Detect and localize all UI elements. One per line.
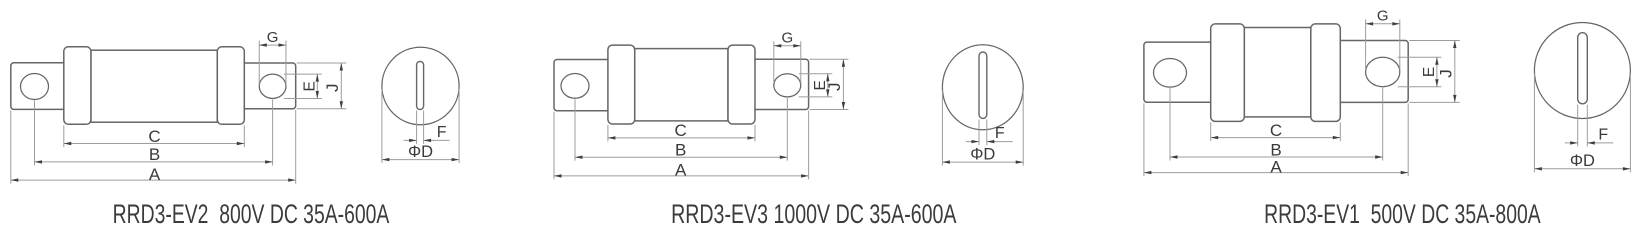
d2 dimension B extension lines [574, 99, 576, 160]
svg-text:RRD3-EV2 800V DC 35A-600A: RRD3-EV2 800V DC 35A-600A [113, 199, 390, 229]
d2 end view circle [942, 45, 1023, 130]
d2 left terminal tab [554, 60, 614, 111]
d2 right terminal tab [751, 59, 809, 109]
d3 dimension J extension lines [1409, 40, 1460, 42]
d1 dimension C [64, 143, 245, 145]
d1 dimension B extension lines [34, 101, 36, 166]
d1 dimension A extension lines [10, 110, 12, 183]
d1 dimension C extension lines [63, 125, 65, 147]
d1 dimension B [35, 161, 273, 163]
d2 right tab hole [774, 74, 801, 97]
svg-text:ΦD: ΦD [970, 146, 995, 164]
d3 dimension G [1366, 23, 1400, 25]
drawing 3 end view [1534, 23, 1630, 173]
d3 dimension C extension lines [1210, 122, 1212, 141]
d2 dimension G extension lines [773, 41, 775, 83]
d1 left end cap [64, 47, 91, 125]
d1 left tab hole [21, 74, 49, 100]
d1 dimension E [316, 74, 318, 98]
d2 right end cap [728, 45, 755, 124]
d2 dimension J [842, 59, 844, 109]
drawing 3 RRD3-EV1 side view [1144, 8, 1460, 177]
d3 dimension ΦD [1534, 168, 1630, 170]
d3 dimension E [1436, 57, 1438, 86]
drawing 2 end view [942, 45, 1023, 166]
d3 slot [1578, 33, 1588, 104]
drawing 1 RRD3-EV2 side view [11, 29, 347, 184]
d2 dimension F [966, 141, 979, 143]
d3 end view circle [1534, 23, 1630, 119]
d3 dimension F [1565, 142, 1578, 144]
d1 right tab hole [259, 74, 286, 98]
svg-text:G: G [781, 30, 793, 47]
d2 dimension E [827, 74, 829, 97]
d3 left terminal tab [1144, 42, 1215, 102]
d2 left end cap [608, 45, 635, 124]
d2 slot [979, 52, 987, 118]
d1 right end cap [217, 47, 244, 125]
svg-text:RRD3-EV1 500V DC 35A-800A: RRD3-EV1 500V DC 35A-800A [1264, 199, 1541, 229]
d3 dimension A [1144, 172, 1408, 174]
svg-text:C: C [1270, 121, 1282, 140]
svg-text:B: B [149, 145, 160, 164]
d3 dimension J [1454, 41, 1456, 103]
d1 dimension ΦD extension lines [381, 89, 383, 163]
drawing 1 end view [382, 47, 459, 163]
svg-text:J: J [323, 84, 342, 93]
d3 dimension E extension lines [1398, 56, 1442, 58]
d1 dimension G [259, 44, 286, 46]
d2 dimension A [554, 175, 809, 177]
drawing 2 RRD3-EV3 side view [554, 30, 848, 180]
d3 dimension G extension lines [1365, 19, 1367, 70]
svg-text:J: J [1437, 69, 1456, 78]
svg-text:E: E [301, 81, 318, 91]
svg-text:G: G [1377, 8, 1389, 25]
d2 dimension ΦD [942, 161, 1023, 163]
d1 slot [417, 61, 424, 109]
d1 end view circle [382, 47, 459, 124]
d3 dimension A extension lines [1143, 103, 1145, 176]
d2 dimension C extension lines [607, 125, 609, 141]
d2 dimension C [608, 137, 755, 139]
svg-text:C: C [675, 121, 687, 140]
d2 dimension G [774, 45, 801, 47]
d1 dimension J [340, 63, 342, 109]
d2 left tab hole [561, 74, 589, 99]
d1 dimension E extension lines [284, 73, 322, 75]
d3 dimension B [1170, 156, 1383, 158]
d3 dimension B extension lines [1169, 88, 1171, 160]
d3 right terminal tab [1336, 41, 1408, 103]
svg-text:G: G [267, 29, 279, 46]
d1 dimension ΦD [382, 159, 459, 161]
d1 dimension G extension lines [258, 41, 260, 85]
d3 dimension C [1211, 137, 1341, 139]
svg-text:F: F [437, 124, 447, 141]
svg-text:B: B [675, 141, 686, 160]
svg-text:A: A [149, 165, 161, 184]
d1 dimension F extension lines [416, 111, 418, 144]
d1 dimension J extension lines [297, 62, 347, 64]
d3 right tab hole [1366, 57, 1400, 86]
d2 dimension J extension lines [810, 58, 849, 60]
d1 right terminal tab [240, 63, 296, 109]
d1 dimension A [11, 179, 296, 181]
d3 dimension F extension lines [1577, 105, 1579, 147]
d1 left terminal tab [11, 63, 70, 110]
svg-text:F: F [995, 125, 1005, 142]
d1 fuse body tube [91, 50, 217, 122]
d2 dimension E extension lines [799, 73, 833, 75]
d3 right end cap [1311, 24, 1341, 122]
svg-text:J: J [825, 83, 844, 92]
d2 dimension F extension lines [978, 119, 980, 145]
d3 left tab hole [1154, 59, 1187, 88]
svg-text:ΦD: ΦD [1570, 152, 1595, 170]
d2 dimension A extension lines [553, 112, 555, 180]
svg-text:ΦD: ΦD [408, 143, 433, 161]
d3 left end cap [1211, 24, 1245, 122]
svg-text:F: F [1598, 126, 1608, 143]
d2 dimension B [575, 156, 787, 158]
d3 fuse body tube [1244, 28, 1311, 117]
svg-text:C: C [148, 127, 160, 146]
d1 dimension F [404, 139, 417, 141]
d2 fuse body tube [635, 49, 728, 121]
d2 dimension ΦD extension lines [941, 90, 943, 165]
svg-text:A: A [675, 161, 687, 180]
d3 dimension ΦD extension lines [1533, 74, 1535, 173]
svg-text:A: A [1270, 157, 1282, 176]
svg-text:RRD3-EV3 1000V DC 35A-600A: RRD3-EV3 1000V DC 35A-600A [671, 199, 957, 229]
svg-text:E: E [1421, 67, 1438, 77]
